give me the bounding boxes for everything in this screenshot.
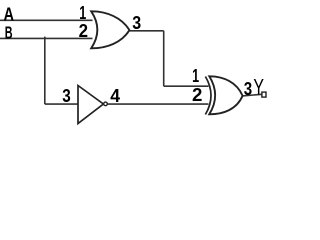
svg-text:A: A bbox=[4, 3, 15, 24]
inverter bubble bbox=[104, 102, 108, 106]
svg-text:3: 3 bbox=[132, 13, 141, 33]
output pin Y square bbox=[262, 92, 266, 97]
inverter triangle bbox=[78, 86, 103, 124]
svg-text:4: 4 bbox=[110, 86, 120, 106]
svg-text:1: 1 bbox=[192, 66, 199, 86]
wire B horizontal bbox=[0, 37, 93, 39]
wire A horizontal bbox=[0, 19, 93, 21]
xor-gate body bbox=[209, 76, 242, 114]
xor-gate leading arc bbox=[205, 77, 211, 115]
or-gate bbox=[91, 11, 129, 48]
wire junction vertical from B bbox=[44, 37, 46, 105]
wire OR output vertical bbox=[163, 31, 165, 86]
wire bottom horizontal into inverter bbox=[45, 103, 78, 105]
svg-text:2: 2 bbox=[192, 85, 202, 105]
wire OR output horizontal bbox=[129, 30, 163, 32]
svg-text:1: 1 bbox=[79, 3, 86, 23]
svg-text:B: B bbox=[5, 23, 13, 43]
wire inverter output to XOR input 2 bbox=[107, 103, 208, 105]
svg-text:3: 3 bbox=[244, 79, 252, 99]
svg-text:3: 3 bbox=[62, 86, 71, 106]
wire into XOR input 1 bbox=[164, 85, 209, 87]
svg-text:2: 2 bbox=[79, 21, 88, 41]
wire XOR output bbox=[242, 94, 262, 96]
